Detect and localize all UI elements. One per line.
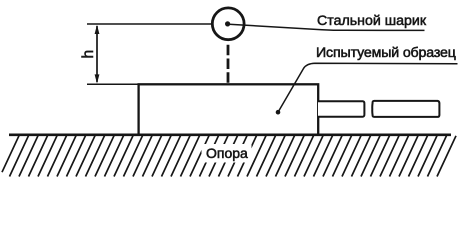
svg-text:Стальной шарик: Стальной шарик [317, 13, 427, 29]
dimension h line with arrows [95, 25, 100, 84]
specimen rectangle [139, 84, 319, 134]
svg-text:h: h [80, 50, 97, 59]
steel ball [212, 8, 244, 40]
leader line to label "Стальной шарик" [229, 24, 425, 30]
svg-text:Испытуемый образец: Испытуемый образец [316, 45, 456, 61]
leader dot inside specimen [276, 110, 281, 115]
leader line to label "Испытуемый образец" [278, 63, 458, 112]
rod segment 2 [372, 101, 439, 117]
svg-text:Опора: Опора [206, 145, 248, 161]
ball center dot [225, 21, 230, 26]
support top surface line [9, 133, 451, 136]
top reference line [87, 23, 212, 25]
drop trajectory dashed line [227, 45, 230, 89]
specimen top surface extension line [87, 83, 140, 85]
rod segment 1 [318, 101, 364, 117]
support hatching [2, 135, 456, 177]
white box behind label "Опора" [202, 144, 252, 163]
